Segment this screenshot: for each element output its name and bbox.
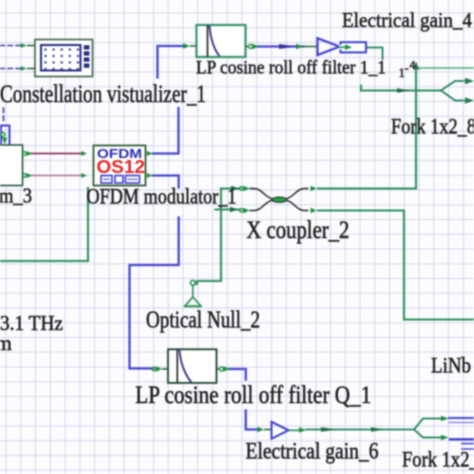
svg-text:Optical Null_2: Optical Null_2 — [146, 308, 260, 334]
fork 1x2 bottom — [414, 419, 441, 438]
component Electrical gain_4 — [296, 38, 366, 55]
component X coupler_2 — [240, 186, 317, 214]
wire maroon m_3 to OFDM modulator bottom — [31, 175, 81, 177]
wire green gain_4 output down — [366, 48, 383, 60]
svg-text:Constellation vistualizer_1: Constellation vistualizer_1 — [0, 81, 206, 108]
wire maroon m_3 to OFDM modulator top — [31, 153, 81, 155]
wire green to Optical Null — [195, 190, 221, 285]
svg-text:-: - — [405, 60, 409, 75]
svg-text:Electrical gain_4: Electrical gain_4 — [342, 8, 472, 32]
svg-text:Electrical gain_6: Electrical gain_6 — [246, 439, 379, 464]
wire blue continuations right edge bottom — [449, 417, 474, 419]
svg-text:Fork 1x2_8: Fork 1x2_8 — [391, 114, 474, 139]
component Optical Null_2 — [184, 280, 202, 306]
wire blue OFDM out1 segment A — [153, 108, 179, 154]
svg-text:OS12: OS12 — [97, 157, 146, 177]
wire green coupler input bottom — [216, 208, 241, 210]
wire blue Q filter out route to gain_6 — [229, 369, 246, 380]
wire green gain_6 to fork — [306, 429, 414, 431]
wire green coupler input top — [221, 187, 240, 189]
wire blue to LP filter 1_1 input segment B — [158, 46, 185, 78]
fork 1x2_8 — [441, 81, 462, 101]
component m_3 (cropped box at left) — [0, 133, 32, 186]
svg-text:OFDM modulator_1: OFDM modulator_1 — [87, 184, 237, 209]
svg-text:1: 1 — [399, 65, 406, 80]
wire blue OFDM out2 long route to Q filter — [153, 176, 179, 188]
wire green horizontal into fork trunk — [361, 86, 441, 91]
wire green X coupler out-top to trunk — [318, 187, 416, 189]
wire dashed vertical stub left edge — [3, 108, 5, 122]
component Constellation visualizer_1 — [21, 40, 93, 77]
wire blue LP filter 1_1 to Electrical gain_4 — [257, 45, 303, 47]
component Electrical gain_6 — [258, 422, 307, 439]
svg-text:LP cosine roll off filter Q_1: LP cosine roll off filter Q_1 — [135, 382, 371, 409]
wire green X coupler out-bottom to LiNb — [318, 211, 474, 320]
component OFDM modulator_1 — [81, 146, 152, 186]
svg-text:LiNb: LiNb — [431, 353, 471, 378]
svg-text:LP cosine roll off filter 1_1: LP cosine roll off filter 1_1 — [196, 58, 386, 79]
svg-text:m_3: m_3 — [0, 184, 32, 208]
svg-text:X coupler_2: X coupler_2 — [246, 217, 349, 244]
wire green top-right to edge — [419, 67, 474, 69]
component LP cosine roll off filter 1_1 — [183, 25, 259, 57]
component LP cosine roll off filter Q_1 — [152, 349, 229, 383]
svg-text:Fork 1x2_2: Fork 1x2_2 — [402, 447, 474, 472]
wire dashed input 2 to visualizer — [0, 68, 20, 70]
svg-text:4: 4 — [410, 60, 416, 72]
wire blue loop above m_3 — [1, 126, 10, 146]
wire green trunk vertical — [415, 64, 417, 189]
wire green left edge elbow — [0, 188, 88, 261]
svg-text:m: m — [0, 331, 12, 355]
wire dashed input 1 to visualizer — [0, 45, 20, 47]
